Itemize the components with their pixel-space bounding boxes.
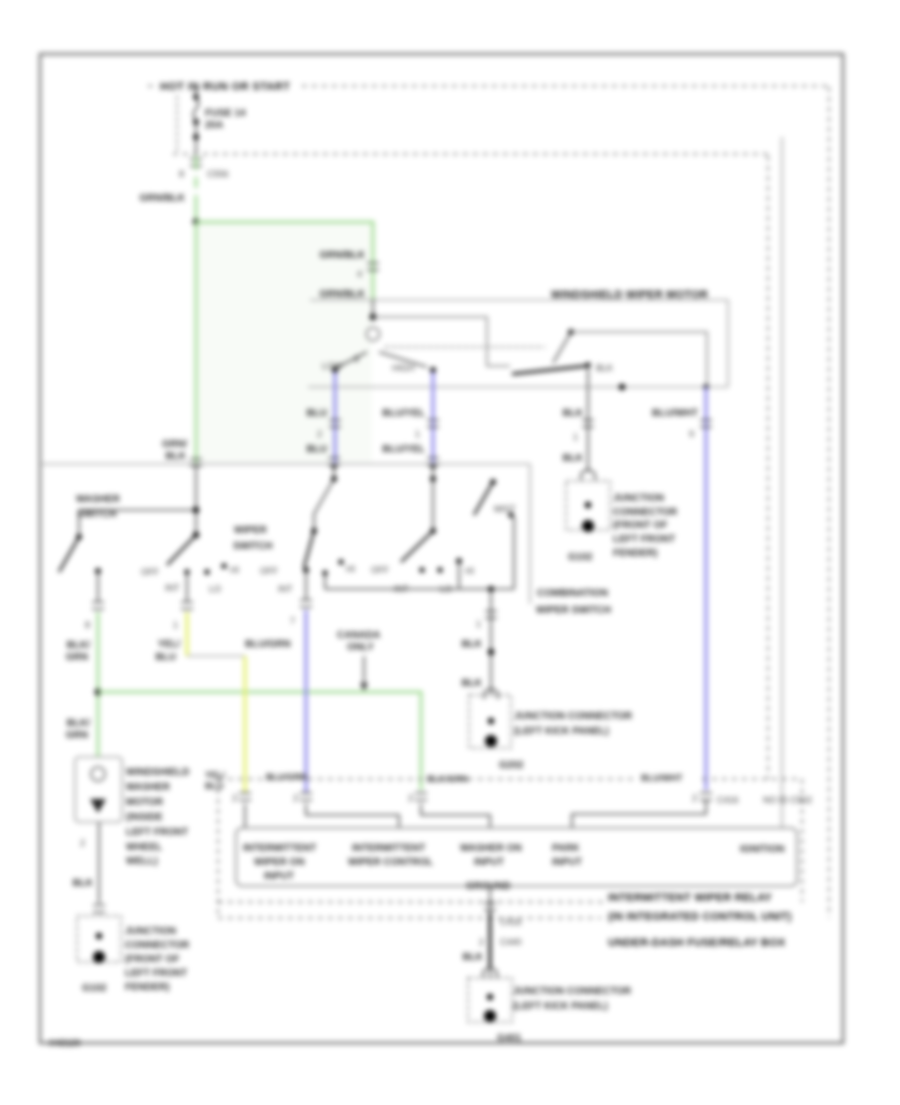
wire from INT contact xyxy=(186,572,188,601)
svg-text:PARK: PARK xyxy=(552,843,580,854)
svg-text:9: 9 xyxy=(689,429,694,439)
svg-text:GRN/BLK: GRN/BLK xyxy=(319,250,365,261)
svg-text:BLK: BLK xyxy=(461,639,482,650)
wire stubs into ICU box xyxy=(244,804,246,828)
svg-text:BLK/GRN: BLK/GRN xyxy=(427,774,468,784)
svg-text:BLK/: BLK/ xyxy=(67,718,91,729)
wiper switch group 3 feed xyxy=(427,458,439,465)
park switch blade xyxy=(553,334,570,363)
wire BLK switch ground xyxy=(490,589,492,694)
svg-text:C440: C440 xyxy=(500,937,522,947)
svg-text:CONNECTOR: CONNECTOR xyxy=(613,507,678,518)
svg-text:CONNECTOR: CONNECTOR xyxy=(125,940,190,951)
junction connector (left kick panel) dashed box xyxy=(469,695,511,748)
svg-text:YEL/: YEL/ xyxy=(158,639,180,650)
svg-text:FENDER): FENDER) xyxy=(125,982,169,993)
svg-text:WASHER: WASHER xyxy=(76,494,121,505)
svg-text:WIPER: WIPER xyxy=(234,525,268,536)
svg-text:JUNCTION CONNECTOR: JUNCTION CONNECTOR xyxy=(514,711,633,722)
svg-text:INPUT: INPUT xyxy=(264,871,294,882)
svg-text:HIGH: HIGH xyxy=(392,363,415,373)
wire switch common bus xyxy=(325,588,514,590)
svg-text:2: 2 xyxy=(479,937,484,947)
group 1 contacts INT LO HI xyxy=(184,569,189,574)
node washer wire junction xyxy=(95,689,102,696)
ground G102 xyxy=(93,951,105,963)
svg-text:BLK/: BLK/ xyxy=(67,640,91,651)
svg-text:GRN: GRN xyxy=(66,730,88,741)
svg-text:C556: C556 xyxy=(207,169,229,179)
svg-text:C416: C416 xyxy=(500,917,522,927)
wiper switch group 1 feed xyxy=(195,464,197,535)
wire BLK from park switch to ground xyxy=(587,365,589,472)
svg-text:FENDER): FENDER) xyxy=(613,548,657,559)
connector ticks at switch box entry xyxy=(190,459,202,466)
node HOT IN RUN OR START dashed power rail xyxy=(148,85,158,87)
svg-text:2: 2 xyxy=(293,793,298,803)
svg-text:BLU: BLU xyxy=(306,444,327,455)
svg-text:LEFT FRONT: LEFT FRONT xyxy=(613,534,675,545)
svg-text:2: 2 xyxy=(232,793,237,803)
svg-text:7: 7 xyxy=(290,616,295,626)
svg-text:CANADA: CANADA xyxy=(337,630,380,641)
node bus to ground xyxy=(488,586,494,592)
group 2 blade xyxy=(304,531,314,567)
svg-text:WASHER: WASHER xyxy=(126,782,171,793)
svg-text:INT: INT xyxy=(165,583,180,593)
inner dashed right edge xyxy=(767,156,769,779)
svg-text:(INSIDE: (INSIDE xyxy=(126,812,163,823)
svg-text:(FRONT OF: (FRONT OF xyxy=(613,520,667,531)
svg-text:1: 1 xyxy=(476,619,481,629)
svg-text:(LEFT KICK PANEL): (LEFT KICK PANEL) xyxy=(513,1001,608,1012)
svg-text:G102: G102 xyxy=(568,552,593,563)
svg-text:GROUND: GROUND xyxy=(466,881,510,892)
junction connector (front of left front fender) dashed box xyxy=(77,916,121,962)
svg-text:WINDSHIELD WIPER MOTOR: WINDSHIELD WIPER MOTOR xyxy=(551,289,708,301)
svg-text:1: 1 xyxy=(573,432,578,442)
integrated control unit dashed box xyxy=(217,779,219,916)
connector ticks into ICU xyxy=(239,793,251,800)
svg-text:HI: HI xyxy=(230,565,239,575)
svg-text:ONLY: ONLY xyxy=(347,642,374,653)
svg-text:BLU: BLU xyxy=(306,408,327,419)
svg-text:2: 2 xyxy=(692,793,697,803)
svg-text:INTERMITTENT: INTERMITTENT xyxy=(243,843,316,854)
svg-text:JUNCTION CONNECTOR: JUNCTION CONNECTOR xyxy=(513,986,632,997)
svg-text:GRN/BLK: GRN/BLK xyxy=(139,193,185,204)
svg-text:OFF: OFF xyxy=(371,565,389,575)
svg-text:WHEEL: WHEEL xyxy=(126,842,162,853)
fuse F14 20A xyxy=(193,94,199,100)
svg-text:JUNCTION: JUNCTION xyxy=(613,493,664,504)
fuse pocket dashed edge xyxy=(176,96,178,152)
svg-text:BLK: BLK xyxy=(562,453,583,464)
wire GRN/BLK branch to wiper motor xyxy=(196,222,373,299)
border frame of schematic xyxy=(40,54,843,1043)
svg-text:BLU: BLU xyxy=(155,652,176,663)
svg-text:(LEFT KICK PANEL): (LEFT KICK PANEL) xyxy=(514,726,609,737)
svg-text:INPUT: INPUT xyxy=(552,857,582,868)
park switch contact xyxy=(568,329,574,335)
wire GRN/BLK from fuse xyxy=(195,156,198,222)
svg-text:COMBINATION: COMBINATION xyxy=(537,588,608,599)
svg-text:INTERMITTENT: INTERMITTENT xyxy=(352,843,425,854)
svg-text:MIST: MIST xyxy=(494,504,516,514)
washer switch blade xyxy=(59,537,79,572)
park switch linkage dashed xyxy=(385,346,545,348)
svg-text:(IN INTEGRATED CONTROL UNIT): (IN INTEGRATED CONTROL UNIT) xyxy=(608,911,792,923)
svg-text:WIPER CONTROL: WIPER CONTROL xyxy=(348,857,433,868)
svg-text:BLU: BLU xyxy=(205,781,224,791)
svg-text:YEL/: YEL/ xyxy=(205,770,226,780)
washer switch contact xyxy=(95,568,101,574)
wire BLU/YEL high speed to switch xyxy=(432,372,435,463)
svg-text:H42120: H42120 xyxy=(49,1038,81,1048)
svg-text:WIPER SWITCH: WIPER SWITCH xyxy=(536,605,611,616)
svg-text:OFF: OFF xyxy=(260,566,278,576)
group 2 contacts xyxy=(322,570,327,575)
washer pump motor symbol xyxy=(91,767,105,781)
group 3 contacts xyxy=(419,567,424,572)
intermittent wiper relay ICU box xyxy=(236,828,797,886)
svg-text:8: 8 xyxy=(85,620,90,630)
svg-text:G202: G202 xyxy=(499,760,524,771)
svg-text:LEFT FRONT: LEFT FRONT xyxy=(126,827,188,838)
svg-text:UNDER-DASH FUSE/RELAY BOX: UNDER-DASH FUSE/RELAY BOX xyxy=(608,937,786,949)
svg-text:BLU/GRN: BLU/GRN xyxy=(245,639,291,650)
svg-text:HI: HI xyxy=(346,564,355,574)
svg-text:BLU/WHT: BLU/WHT xyxy=(652,408,698,419)
svg-text:INTERMITTENT WIPER RELAY: INTERMITTENT WIPER RELAY xyxy=(608,892,772,904)
svg-text:BLK: BLK xyxy=(462,952,483,963)
wire BLU low speed to switch xyxy=(334,372,337,463)
ground G102 xyxy=(582,520,594,532)
wire BLU/WHT park signal xyxy=(703,384,708,389)
node HIGH contact xyxy=(430,367,436,373)
wiper switch group 1 blade xyxy=(167,535,196,565)
wire IGNITION feed xyxy=(781,137,783,828)
group 3 blade xyxy=(401,531,433,562)
svg-text:8: 8 xyxy=(179,169,184,179)
wire park-switch feed loop xyxy=(373,317,510,366)
wire washer switch output xyxy=(97,571,99,601)
junction connector entry bracket xyxy=(483,968,497,978)
svg-text:LO: LO xyxy=(209,584,221,594)
svg-text:3: 3 xyxy=(354,354,359,364)
wire BLU/GRN wiper control output xyxy=(305,570,307,599)
svg-text:NO ID C502: NO ID C502 xyxy=(763,795,812,805)
svg-text:2: 2 xyxy=(80,838,85,848)
svg-text:1: 1 xyxy=(173,620,178,630)
inner dashed boundary (fuse box bottom rail) xyxy=(173,153,768,155)
svg-text:WELL): WELL) xyxy=(126,856,158,867)
svg-text:BLK: BLK xyxy=(562,408,583,419)
svg-text:HI: HI xyxy=(465,566,474,576)
svg-text:2: 2 xyxy=(408,793,413,803)
svg-text:BLU/YEL: BLU/YEL xyxy=(382,408,425,419)
svg-text:BLU/YEL: BLU/YEL xyxy=(382,444,425,455)
node wire junction on motor box edge xyxy=(619,384,625,390)
svg-text:BLK: BLK xyxy=(72,878,93,889)
svg-text:WINDSHIELD: WINDSHIELD xyxy=(126,767,189,778)
motor M1 armature xyxy=(367,328,380,341)
wire BLK/GRN washer-on signal to ICU xyxy=(98,692,421,790)
junction connector entry bracket xyxy=(581,470,595,480)
svg-text:G102: G102 xyxy=(82,983,107,994)
svg-text:C416: C416 xyxy=(717,795,739,805)
svg-text:HOT IN RUN OR START: HOT IN RUN OR START xyxy=(160,81,290,93)
svg-text:G401: G401 xyxy=(497,1033,522,1044)
under-dash fuse/relay box right dashed edge xyxy=(828,87,830,918)
wire GRN/BLK down to combination switch xyxy=(195,222,198,463)
connector pin 4 ticks xyxy=(367,263,379,270)
wire YEL/BLU intermittent-on to ICU xyxy=(185,612,188,656)
svg-text:MOTOR: MOTOR xyxy=(126,797,164,808)
wiper switch group 2 feed xyxy=(328,458,340,465)
svg-text:GRN/BLK: GRN/BLK xyxy=(319,289,365,300)
mist switch blade xyxy=(490,479,496,485)
svg-text:2: 2 xyxy=(317,429,322,439)
svg-text:BLK: BLK xyxy=(165,451,186,462)
windshield washer motor box xyxy=(75,757,122,822)
ground G202 xyxy=(485,735,497,747)
svg-text:WASHER ON: WASHER ON xyxy=(460,843,522,854)
connector C556 ticks xyxy=(190,159,202,166)
motor brush to LOW contact xyxy=(336,352,367,368)
ground G401 xyxy=(484,1010,496,1022)
svg-text:LOW: LOW xyxy=(322,361,343,371)
junction connector (left kick panel) dashed box xyxy=(468,978,512,1022)
svg-text:IGNITION: IGNITION xyxy=(740,844,784,855)
svg-text:INT: INT xyxy=(278,584,293,594)
svg-text:WIPER ON: WIPER ON xyxy=(254,857,305,868)
svg-text:FUSE 14: FUSE 14 xyxy=(205,108,246,119)
motor brush to HIGH contact xyxy=(379,352,427,367)
svg-text:SWITCH: SWITCH xyxy=(233,541,272,552)
windshield wiper motor box xyxy=(308,300,728,387)
junction connector entry bracket xyxy=(484,689,498,699)
svg-text:GRN: GRN xyxy=(66,652,88,663)
svg-text:BLK: BLK xyxy=(461,678,482,689)
svg-text:INPUT: INPUT xyxy=(474,857,504,868)
svg-text:GRN/: GRN/ xyxy=(162,439,187,450)
wire BLK washer ground xyxy=(98,822,100,903)
svg-text:BLU/GRN: BLU/GRN xyxy=(266,772,307,782)
wire park signal to BLU/WHT xyxy=(571,332,707,387)
wire ICU ground xyxy=(489,886,491,913)
svg-text:1: 1 xyxy=(415,429,420,439)
wire BLK/GRN washer feed xyxy=(97,612,100,757)
svg-text:LEFT FRONT: LEFT FRONT xyxy=(125,968,187,979)
svg-text:20A: 20A xyxy=(205,120,223,131)
junction connector (front of left front fender) dashed box xyxy=(566,481,610,530)
svg-text:(FRONT OF: (FRONT OF xyxy=(125,954,179,965)
svg-text:BLK: BLK xyxy=(596,363,613,373)
svg-text:OFF: OFF xyxy=(141,567,159,577)
park switch common xyxy=(585,362,590,367)
node LOW contact xyxy=(332,367,338,373)
junction dot xyxy=(193,219,200,226)
mist contact xyxy=(508,512,513,517)
svg-text:BLU/WHT: BLU/WHT xyxy=(641,773,683,783)
faint green tint between GRN/BLK wires xyxy=(198,224,372,462)
combination wiper switch box right edge xyxy=(529,464,531,604)
svg-text:JUNCTION: JUNCTION xyxy=(125,926,176,937)
svg-text:4: 4 xyxy=(357,269,362,279)
combination wiper switch box top edge xyxy=(42,463,530,465)
wire motor feed xyxy=(372,299,374,317)
node motor junction xyxy=(370,314,377,321)
